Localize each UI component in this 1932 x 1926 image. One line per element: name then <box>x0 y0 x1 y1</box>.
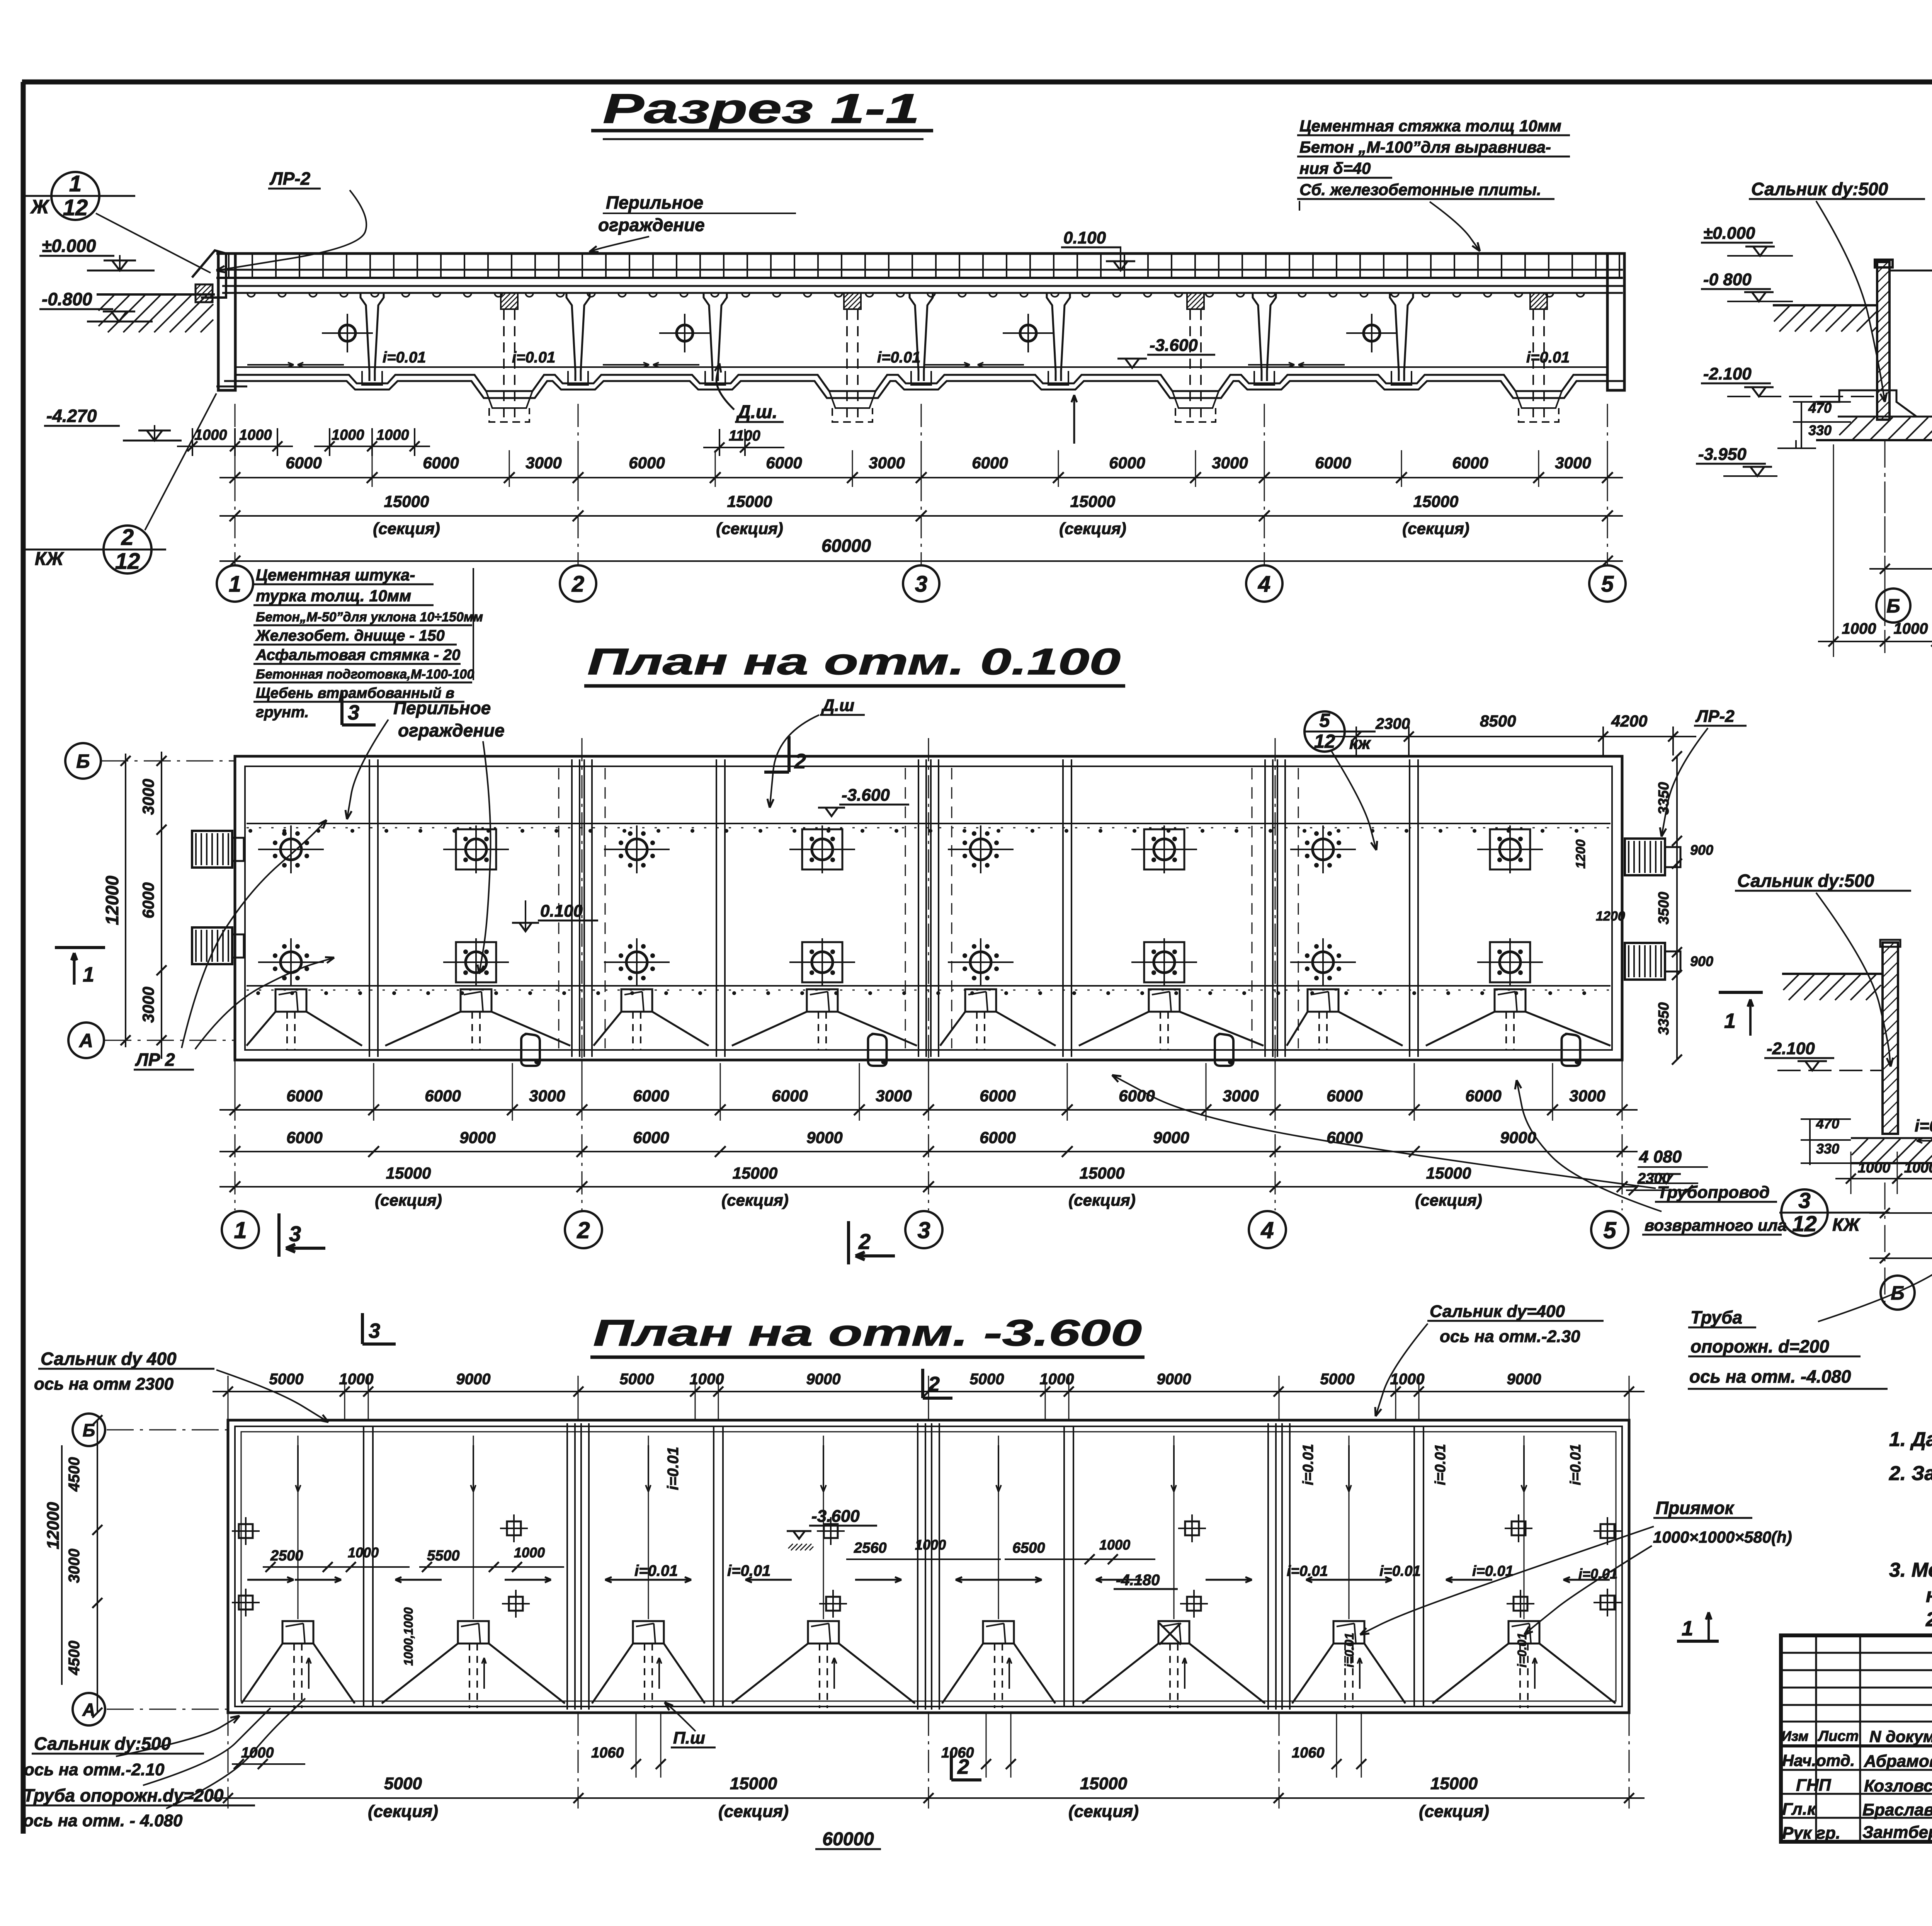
svg-text:6000: 6000 <box>629 454 665 472</box>
svg-text:ось на отм. - 4.080: ось на отм. - 4.080 <box>23 1811 183 1830</box>
svg-text:6000: 6000 <box>139 882 157 918</box>
svg-text:5: 5 <box>1603 1217 1617 1243</box>
svg-text:i=0.01: i=0.01 <box>1300 1444 1316 1485</box>
svg-text:Труба: Труба <box>1690 1307 1742 1327</box>
svg-text:12: 12 <box>63 195 88 220</box>
svg-text:9000: 9000 <box>806 1128 842 1147</box>
svg-text:9000: 9000 <box>1153 1128 1189 1147</box>
svg-text:Железобет. днище - 150: Железобет. днище - 150 <box>255 627 445 644</box>
svg-text:Б: Б <box>76 750 90 772</box>
svg-text:(секция): (секция) <box>1068 1802 1139 1821</box>
svg-text:1000: 1000 <box>915 1537 946 1553</box>
svg-text:1000: 1000 <box>332 427 364 443</box>
svg-text:1: 1 <box>1724 1009 1736 1033</box>
svg-text:i=0.01: i=0.01 <box>1526 349 1570 366</box>
svg-text:9000: 9000 <box>806 1371 841 1388</box>
svg-text:3000: 3000 <box>1223 1087 1259 1105</box>
svg-text:i=0.01: i=0.01 <box>1287 1563 1328 1579</box>
svg-text:15000: 15000 <box>1430 1774 1478 1793</box>
svg-text:3000: 3000 <box>139 779 157 815</box>
svg-text:±0.000: ±0.000 <box>1703 224 1755 243</box>
svg-text:3: 3 <box>369 1319 380 1342</box>
svg-text:Гл.к: Гл.к <box>1782 1800 1817 1819</box>
svg-text:-0 800: -0 800 <box>1703 270 1752 289</box>
svg-text:ЛР-2: ЛР-2 <box>1695 707 1735 726</box>
svg-text:-0.800: -0.800 <box>42 289 92 309</box>
svg-text:6000: 6000 <box>1452 454 1488 472</box>
svg-text:Разрез 1-1: Разрез 1-1 <box>603 85 920 132</box>
svg-text:1: 1 <box>229 572 241 597</box>
svg-text:12000: 12000 <box>102 876 122 925</box>
svg-text:1000: 1000 <box>194 427 227 443</box>
svg-text:2: 2 <box>571 572 584 597</box>
svg-text:6000: 6000 <box>1465 1087 1501 1105</box>
svg-text:4: 4 <box>1260 1217 1274 1243</box>
svg-text:i=0.01: i=0.01 <box>1379 1563 1421 1579</box>
svg-text:КЖ: КЖ <box>35 549 65 569</box>
svg-text:1200: 1200 <box>1596 909 1625 924</box>
svg-text:-3.600: -3.600 <box>1150 336 1198 355</box>
svg-text:i=0.01: i=0.01 <box>665 1447 682 1490</box>
svg-text:i=0.01: i=0.01 <box>1915 1116 1932 1135</box>
svg-text:-4.180: -4.180 <box>1116 1572 1160 1589</box>
svg-text:-3.950: -3.950 <box>1698 445 1747 464</box>
svg-text:(секция): (секция) <box>718 1802 789 1821</box>
svg-text:3000: 3000 <box>1555 454 1591 472</box>
svg-text:5: 5 <box>1319 710 1330 731</box>
svg-text:(секция): (секция) <box>1059 519 1126 538</box>
svg-text:1060: 1060 <box>1292 1745 1325 1761</box>
svg-text:Изм: Изм <box>1781 1728 1808 1744</box>
svg-text:(секция): (секция) <box>373 519 440 538</box>
svg-text:1000: 1000 <box>348 1545 379 1560</box>
svg-text:15000: 15000 <box>1070 492 1116 510</box>
svg-text:6000: 6000 <box>1315 454 1351 472</box>
svg-text:План на отм. -3.600: План на отм. -3.600 <box>593 1312 1142 1354</box>
svg-text:5000: 5000 <box>620 1371 654 1388</box>
svg-text:4 080: 4 080 <box>1639 1147 1682 1166</box>
svg-text:ось на отм.-2.30: ось на отм.-2.30 <box>1440 1327 1580 1346</box>
svg-text:Сальник dy 400: Сальник dy 400 <box>41 1349 177 1369</box>
svg-text:(секция): (секция) <box>716 519 783 538</box>
svg-text:15000: 15000 <box>1080 1164 1125 1182</box>
svg-text:турка толщ. 10мм: турка толщ. 10мм <box>256 587 411 605</box>
svg-text:Д.ш: Д.ш <box>821 696 854 715</box>
svg-text:(секция): (секция) <box>1419 1802 1489 1821</box>
svg-text:4200: 4200 <box>1611 712 1647 730</box>
svg-text:±0.000: ±0.000 <box>42 236 96 256</box>
svg-text:1060: 1060 <box>591 1745 624 1761</box>
svg-text:9000: 9000 <box>459 1128 495 1147</box>
svg-text:3350: 3350 <box>1656 782 1672 815</box>
svg-text:Цементная стяжка толщ 10мм: Цементная стяжка толщ 10мм <box>1299 117 1561 135</box>
svg-text:6000: 6000 <box>1109 454 1145 472</box>
svg-text:9000: 9000 <box>1157 1371 1191 1388</box>
svg-text:3000: 3000 <box>1569 1087 1605 1105</box>
svg-text:1000: 1000 <box>1842 620 1876 637</box>
svg-text:15000: 15000 <box>733 1164 778 1182</box>
svg-text:470: 470 <box>1816 1116 1839 1131</box>
svg-text:1000: 1000 <box>514 1545 545 1560</box>
svg-text:Козловская: Козловская <box>1864 1776 1932 1795</box>
svg-text:12: 12 <box>1792 1211 1817 1236</box>
svg-text:4500: 4500 <box>66 1641 83 1676</box>
svg-text:3. Металлические конструкции: 3. Металлические конструкции лестниц и о… <box>1889 1559 1932 1581</box>
svg-text:0.100: 0.100 <box>540 902 583 920</box>
svg-text:330: 330 <box>1808 422 1832 438</box>
svg-text:А: А <box>78 1030 93 1051</box>
svg-text:2: 2 <box>121 525 134 550</box>
svg-text:15000: 15000 <box>730 1774 777 1793</box>
svg-text:15000: 15000 <box>727 492 772 510</box>
svg-text:15000: 15000 <box>384 492 429 510</box>
svg-text:Бетонная подготовка,М-100-100: Бетонная подготовка,М-100-100 <box>256 667 474 682</box>
svg-text:3000: 3000 <box>139 987 157 1023</box>
svg-text:9000: 9000 <box>456 1371 491 1388</box>
svg-text:3: 3 <box>348 701 359 724</box>
svg-text:1000: 1000 <box>1390 1371 1425 1388</box>
svg-text:Нач.отд.: Нач.отд. <box>1782 1751 1855 1769</box>
svg-text:-2.100: -2.100 <box>1703 364 1752 383</box>
svg-text:5000: 5000 <box>384 1774 422 1793</box>
svg-text:60000: 60000 <box>821 536 871 556</box>
svg-text:5000: 5000 <box>269 1371 304 1388</box>
svg-text:1000: 1000 <box>690 1371 724 1388</box>
svg-text:5000: 5000 <box>1320 1371 1355 1388</box>
svg-text:5: 5 <box>1601 572 1614 597</box>
svg-text:1000: 1000 <box>241 1745 274 1761</box>
svg-text:Ж: Ж <box>30 196 50 218</box>
svg-text:i=0.01: i=0.01 <box>383 349 426 366</box>
svg-text:15000: 15000 <box>1413 492 1459 510</box>
svg-text:1: 1 <box>83 963 94 986</box>
svg-text:330: 330 <box>1816 1141 1839 1157</box>
svg-text:3500: 3500 <box>1656 892 1672 925</box>
svg-text:3000: 3000 <box>1212 454 1248 472</box>
svg-text:i=0.01: i=0.01 <box>727 1562 770 1579</box>
svg-text:ЛР 2: ЛР 2 <box>135 1050 175 1070</box>
svg-text:Бетон„М-50”для уклона 10÷150мм: Бетон„М-50”для уклона 10÷150мм <box>256 610 483 624</box>
svg-text:Асфальтовая стямка - 20: Асфальтовая стямка - 20 <box>255 647 460 664</box>
svg-text:Зантберг: Зантберг <box>1862 1823 1932 1842</box>
svg-text:6000: 6000 <box>286 454 321 472</box>
svg-text:2: 2 <box>858 1229 871 1254</box>
svg-text:3000: 3000 <box>526 454 561 472</box>
svg-text:-2.100: -2.100 <box>1767 1039 1815 1058</box>
svg-text:6000: 6000 <box>980 1128 1015 1147</box>
svg-text:ГНП: ГНП <box>1796 1776 1832 1795</box>
svg-text:грунт.: грунт. <box>256 704 309 721</box>
svg-text:3000: 3000 <box>66 1549 83 1583</box>
svg-text:6000: 6000 <box>980 1087 1015 1105</box>
svg-text:ось на отм.-2.10: ось на отм.-2.10 <box>24 1760 165 1779</box>
svg-text:15000: 15000 <box>1080 1774 1128 1793</box>
svg-text:опорожн. d=200: опорожн. d=200 <box>1690 1336 1829 1356</box>
svg-text:15000: 15000 <box>1426 1164 1471 1182</box>
svg-text:4500: 4500 <box>66 1457 83 1492</box>
svg-text:П.ш: П.ш <box>673 1729 705 1747</box>
svg-text:Трубопровод: Трубопровод <box>1657 1183 1770 1202</box>
svg-text:-3.600: -3.600 <box>842 786 890 805</box>
svg-text:(секция): (секция) <box>368 1802 438 1821</box>
svg-text:(секция): (секция) <box>375 1191 442 1209</box>
svg-text:(секция): (секция) <box>1068 1191 1136 1209</box>
svg-text:1000: 1000 <box>339 1371 374 1388</box>
svg-text:6000: 6000 <box>423 454 459 472</box>
svg-text:ограждение: ограждение <box>398 720 505 740</box>
svg-text:6000: 6000 <box>425 1087 461 1105</box>
svg-text:1000: 1000 <box>1858 1160 1891 1176</box>
svg-text:Перильное: Перильное <box>393 698 491 718</box>
svg-text:Перильное: Перильное <box>606 192 703 213</box>
svg-text:i=0.01: i=0.01 <box>1515 1633 1529 1667</box>
svg-text:6500: 6500 <box>1012 1540 1045 1556</box>
svg-text:4: 4 <box>1258 572 1270 597</box>
svg-text:8500: 8500 <box>1480 712 1516 730</box>
svg-text:Приямок: Приямок <box>1656 1498 1735 1518</box>
svg-text:i=0.01: i=0.01 <box>1568 1444 1584 1485</box>
svg-text:ось на отм. -4.080: ось на отм. -4.080 <box>1689 1366 1851 1387</box>
svg-text:2560: 2560 <box>854 1540 887 1556</box>
svg-text:i=0.01: i=0.01 <box>512 349 555 366</box>
svg-text:ограждение: ограждение <box>598 215 705 235</box>
svg-text:1: 1 <box>69 171 82 196</box>
svg-text:2: 2 <box>577 1217 590 1243</box>
svg-text:0.100: 0.100 <box>1063 228 1106 247</box>
svg-text:1: 1 <box>234 1217 247 1243</box>
svg-text:1000: 1000 <box>1099 1537 1130 1553</box>
svg-text:9000: 9000 <box>1507 1371 1541 1388</box>
svg-text:12: 12 <box>115 549 140 574</box>
svg-text:1200: 1200 <box>1573 839 1588 869</box>
svg-text:(секция): (секция) <box>721 1191 789 1209</box>
svg-text:Сальник dy:500: Сальник dy:500 <box>1737 871 1874 891</box>
svg-text:900: 900 <box>1690 842 1713 858</box>
svg-text:3: 3 <box>915 572 927 597</box>
svg-text:План на отм. 0.100: План на отм. 0.100 <box>587 641 1121 682</box>
svg-text:ось на отм 2300: ось на отм 2300 <box>34 1375 174 1393</box>
svg-text:1000: 1000 <box>1904 1160 1932 1176</box>
svg-text:Б: Б <box>1891 1282 1904 1304</box>
svg-text:9000: 9000 <box>1500 1128 1536 1147</box>
svg-text:Цементная штука-: Цементная штука- <box>256 566 415 584</box>
svg-text:3350: 3350 <box>1656 1002 1672 1035</box>
svg-text:i=0.01: i=0.01 <box>877 349 920 366</box>
svg-text:Лист: Лист <box>1817 1728 1859 1744</box>
svg-text:ний окрашиваются масляной: ний окрашиваются масляной краской за <box>1926 1584 1932 1607</box>
svg-text:возвратного ила: возвратного ила <box>1645 1216 1787 1234</box>
svg-text:3000: 3000 <box>876 1087 912 1105</box>
svg-text:(секция): (секция) <box>1402 519 1469 538</box>
svg-text:-3.600: -3.600 <box>811 1507 860 1526</box>
svg-text:Браславский: Браславский <box>1862 1800 1932 1819</box>
svg-text:ЛР-2: ЛР-2 <box>269 168 311 189</box>
svg-text:Сальник dy=400: Сальник dy=400 <box>1430 1302 1565 1321</box>
svg-text:ния δ=40: ния δ=40 <box>1299 159 1371 177</box>
svg-text:-4.270: -4.270 <box>46 406 97 426</box>
svg-text:2300: 2300 <box>1375 715 1410 732</box>
svg-text:2500: 2500 <box>270 1548 303 1564</box>
svg-text:1000: 1000 <box>239 427 272 443</box>
svg-text:1000,1000: 1000,1000 <box>401 1607 415 1666</box>
svg-text:N докум.: N докум. <box>1869 1727 1932 1746</box>
svg-text:3000: 3000 <box>869 454 905 472</box>
svg-text:3000: 3000 <box>529 1087 565 1105</box>
svg-text:3: 3 <box>1798 1188 1811 1213</box>
svg-text:2: 2 <box>928 1373 940 1396</box>
svg-text:2: 2 <box>957 1755 969 1778</box>
svg-text:Сальник dy:500: Сальник dy:500 <box>1751 179 1888 199</box>
svg-text:6000: 6000 <box>286 1128 322 1147</box>
svg-text:2. За условную отметку ±0 0: 2. За условную отметку ±0 000 принят <box>1889 1462 1932 1485</box>
svg-text:1000: 1000 <box>1040 1371 1074 1388</box>
svg-text:6000: 6000 <box>972 454 1008 472</box>
svg-text:6000: 6000 <box>286 1087 322 1105</box>
svg-text:12: 12 <box>1314 731 1335 752</box>
svg-text:2 раза по огрунтовке.: 2 раза по огрунтовке. <box>1925 1608 1932 1631</box>
svg-text:3: 3 <box>917 1217 930 1243</box>
svg-text:12000: 12000 <box>44 1502 63 1549</box>
svg-text:6000: 6000 <box>633 1128 669 1147</box>
svg-text:6000: 6000 <box>633 1087 669 1105</box>
svg-text:Б: Б <box>1886 595 1900 617</box>
svg-text:i=0.01: i=0.01 <box>1432 1444 1449 1485</box>
svg-text:Рук гр.: Рук гр. <box>1782 1824 1840 1843</box>
svg-text:6000: 6000 <box>772 1087 808 1105</box>
svg-text:3: 3 <box>289 1222 301 1246</box>
svg-text:i=0.01: i=0.01 <box>634 1562 678 1579</box>
svg-text:1000×1000×580(h): 1000×1000×580(h) <box>1653 1528 1792 1546</box>
svg-text:1. Данный лист комплектен с: 1. Данный лист комплектен с листами кж-1… <box>1889 1428 1932 1451</box>
svg-text:i=0.01: i=0.01 <box>1342 1633 1356 1667</box>
svg-text:Сб. железобетонные плиты.: Сб. железобетонные плиты. <box>1299 180 1541 199</box>
svg-text:Бетон „М-100”для выравнива-: Бетон „М-100”для выравнива- <box>1299 138 1551 156</box>
svg-text:Абрамович: Абрамович <box>1864 1752 1932 1771</box>
svg-text:(секция): (секция) <box>1415 1191 1482 1209</box>
svg-text:1: 1 <box>1682 1617 1693 1640</box>
svg-text:6000: 6000 <box>766 454 802 472</box>
svg-text:60000: 60000 <box>822 1829 874 1849</box>
svg-text:КЖ: КЖ <box>1832 1215 1861 1235</box>
svg-text:5500: 5500 <box>427 1548 460 1564</box>
svg-text:900: 900 <box>1690 953 1713 969</box>
svg-text:15000: 15000 <box>386 1164 431 1182</box>
svg-text:Д.ш.: Д.ш. <box>736 402 777 422</box>
svg-text:2: 2 <box>794 750 806 773</box>
svg-text:1000: 1000 <box>376 427 409 443</box>
svg-text:6000: 6000 <box>1327 1087 1362 1105</box>
svg-text:Сальник dy:500: Сальник dy:500 <box>34 1734 171 1754</box>
svg-text:5000: 5000 <box>970 1371 1004 1388</box>
